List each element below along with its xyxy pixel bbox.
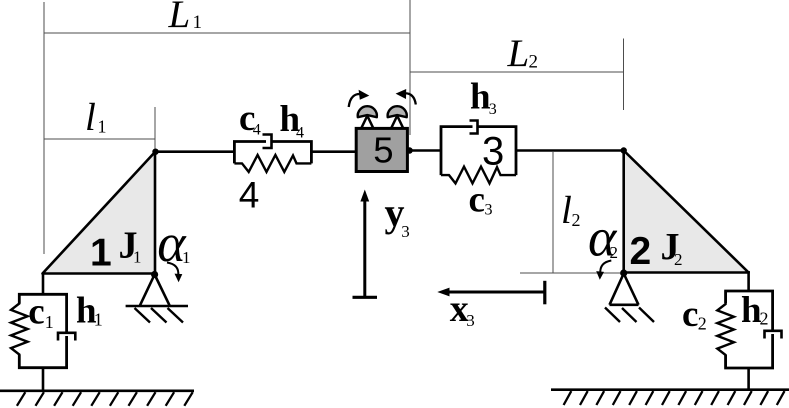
ground line left (0, 389, 194, 392)
label l1 (85, 96, 107, 139)
label 4 (239, 174, 260, 215)
svg-text:l: l (85, 96, 96, 139)
label alpha2 (588, 208, 618, 268)
element 4 box (234, 142, 311, 164)
alpha1 rotation arrow (167, 263, 182, 283)
svg-text:2: 2 (610, 243, 619, 262)
svg-text:2: 2 (529, 52, 539, 73)
svg-text:c: c (682, 294, 698, 335)
label x3 (450, 288, 475, 330)
rod rocker2 to element 2 (747, 271, 750, 291)
svg-text:1: 1 (193, 12, 203, 33)
svg-text:3: 3 (482, 129, 504, 173)
svg-text:L: L (168, 0, 191, 36)
label h2 (741, 290, 769, 331)
axis y3 (353, 190, 378, 298)
pivot 1 hatching (135, 308, 184, 323)
svg-text:5: 5 (373, 130, 393, 171)
node mass 5 right pin (406, 147, 412, 153)
label l2 (561, 189, 581, 232)
rocker body 1 triangle (43, 152, 156, 274)
svg-text:4: 4 (296, 125, 304, 142)
dimension line l1 (44, 138, 155, 140)
axis x3 (437, 281, 545, 305)
wire apex1 to element 4 (155, 150, 234, 153)
rocker body 2 triangle (624, 151, 749, 273)
dimension line L2 (410, 71, 624, 73)
label c1 (28, 292, 54, 333)
element 1 box (19, 294, 66, 367)
spring c1 zigzag (11, 294, 28, 367)
damper h4 cup (263, 135, 272, 149)
label J2 (661, 226, 683, 269)
mass 5 body (356, 128, 407, 171)
svg-text:L: L (507, 32, 530, 75)
rod element 1 to ground (42, 368, 45, 391)
damper h2 cup (765, 331, 782, 339)
label c2 (682, 294, 707, 335)
label 3 (482, 129, 504, 173)
svg-text:3: 3 (466, 311, 475, 330)
wire element 3 to apex 2 (516, 149, 624, 152)
svg-text:1: 1 (182, 248, 191, 267)
element 3 box (441, 127, 516, 176)
svg-text:2: 2 (698, 314, 707, 334)
wire mass 5 to element 3 (407, 149, 441, 152)
label L2 (507, 32, 539, 75)
damper h3 cup (470, 121, 478, 134)
rotation arrow right (cw) (396, 89, 416, 105)
svg-text:4: 4 (253, 122, 261, 139)
wire element 4 to mass 5 (311, 150, 356, 153)
dimension line L1 (44, 32, 410, 34)
label L1 (168, 0, 203, 36)
label c3 (469, 180, 493, 221)
pivot node 1 (151, 271, 158, 278)
pivot node 2 (620, 269, 627, 276)
svg-text:2: 2 (674, 250, 683, 269)
svg-text:1: 1 (133, 248, 142, 267)
ground line right (551, 388, 789, 391)
pivot 2 hatching (605, 308, 654, 323)
spring c2 zigzag (717, 291, 734, 368)
dimension extension line right (x=623.5) (623, 39, 625, 111)
label 5 (373, 130, 393, 171)
label c4 (239, 98, 261, 139)
dimension line l2 vertical (x=553) (552, 152, 554, 273)
dimension tick l1 right (x=155) (154, 107, 156, 151)
svg-text:4: 4 (239, 174, 260, 215)
ground hatching left (17, 392, 193, 406)
label 2 (630, 230, 652, 273)
label h4 (280, 99, 305, 142)
svg-text:2: 2 (760, 309, 769, 329)
svg-text:1: 1 (94, 310, 103, 330)
node apex 1 (152, 149, 158, 155)
label h1 (76, 290, 103, 331)
label alpha1 (157, 213, 190, 273)
label 1 (90, 232, 112, 275)
svg-text:3: 3 (401, 222, 410, 241)
rotation arrow left (ccw) (349, 90, 370, 107)
node apex 2 (621, 147, 627, 153)
svg-text:l: l (561, 189, 572, 232)
svg-text:1: 1 (98, 117, 107, 137)
svg-text:3: 3 (489, 101, 497, 118)
dimension tick l2 bottom (y=273) (520, 272, 623, 274)
rod element 2 to ground (747, 368, 750, 390)
exciter rotor left on mass 5 (358, 106, 377, 129)
spring c4 zigzag (234, 155, 311, 172)
svg-text:2: 2 (630, 230, 652, 273)
spring c3 zigzag (441, 167, 516, 184)
dimension extension line center (x=410) (409, 0, 411, 135)
dimension extension line left (x=44) (43, 2, 45, 254)
label J1 (119, 225, 142, 267)
svg-text:c: c (28, 292, 44, 333)
svg-text:1: 1 (45, 312, 54, 332)
label h3 (470, 77, 497, 119)
svg-text:3: 3 (485, 202, 493, 219)
pivot support 2 (610, 274, 639, 305)
label y3 (385, 190, 410, 241)
svg-text:1: 1 (90, 232, 112, 275)
exciter rotor right on mass 5 (388, 106, 407, 129)
rod rocker1 to element 1 (42, 273, 45, 294)
svg-text:c: c (469, 180, 485, 221)
svg-text:2: 2 (572, 210, 581, 230)
ground hatching right (564, 391, 785, 405)
alpha2 rotation arrow (596, 261, 611, 280)
element 2 box (726, 291, 773, 368)
damper h1 cup (58, 333, 75, 341)
pivot support 1 (126, 275, 188, 307)
